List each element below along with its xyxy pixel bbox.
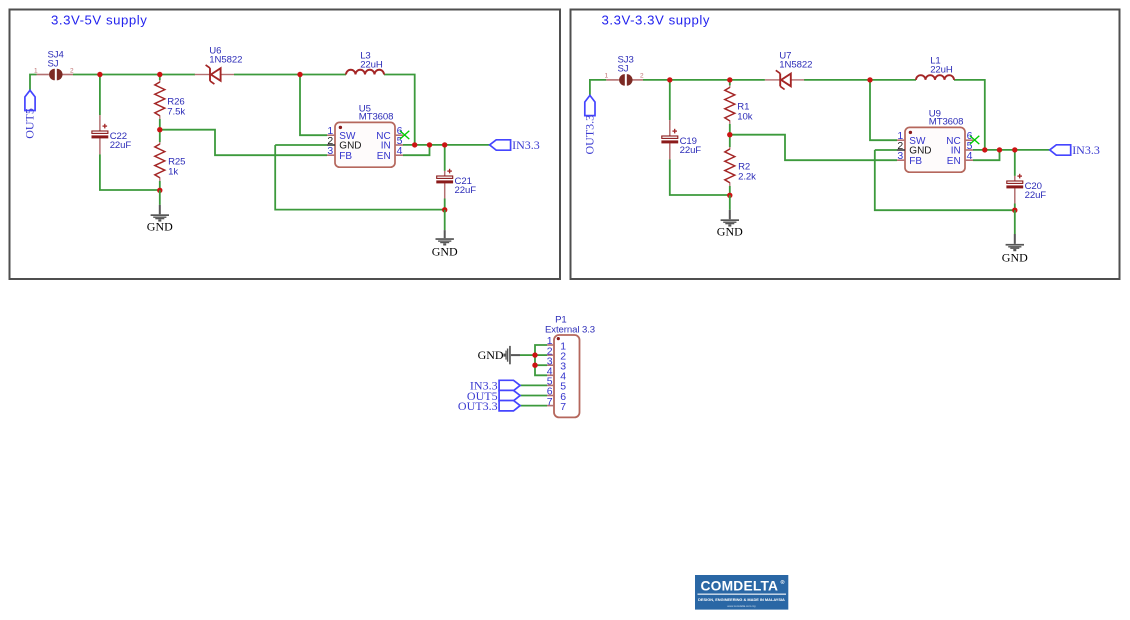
pin 2 of P1: [547, 345, 566, 362]
wire bus to pin 2: [535, 354, 547, 356]
svg-text:External 3.3: External 3.3: [545, 325, 595, 336]
junction divider node: [157, 127, 162, 132]
junction C20 bottom: [1012, 208, 1017, 213]
COMDELTA logo: [695, 575, 788, 610]
pin 4 EN of U5: [377, 145, 403, 162]
svg-text:3: 3: [897, 150, 903, 162]
svg-text:2: 2: [70, 67, 74, 74]
svg-text:GND: GND: [1002, 250, 1028, 264]
pin 4 EN of U9: [947, 150, 973, 167]
wire divider node to pin FB: [160, 130, 327, 156]
pin 4 of P1: [547, 366, 566, 383]
wire junction to R1: [729, 80, 731, 86]
svg-text:IN3.3: IN3.3: [512, 138, 540, 152]
op-amp/IC U9 MT3608 body: [905, 108, 965, 172]
svg-text:DESIGN, ENGINEERING & MADE IN: DESIGN, ENGINEERING & MADE IN MALAYSIA: [698, 597, 785, 602]
pin 5 IN of U9: [951, 140, 973, 157]
wire node to pin SW of U9: [870, 80, 897, 140]
wire to ground under C21: [444, 210, 446, 230]
svg-text:EN: EN: [947, 156, 961, 167]
capacitor C21: [436, 169, 476, 199]
capacitor C20: [1006, 174, 1046, 204]
wire node to pin SW: [300, 75, 327, 136]
svg-text:IN3.3: IN3.3: [1072, 143, 1100, 157]
solder jumper SJ3: [618, 55, 634, 86]
svg-text:3.3V-3.3V supply: 3.3V-3.3V supply: [602, 13, 711, 28]
svg-text:7.5k: 7.5k: [167, 107, 185, 118]
pin 2 of SJ4: [62, 67, 74, 74]
svg-text:7: 7: [547, 396, 553, 408]
wire pin GND of U9 left: [875, 149, 897, 151]
ground GND at P1 (left pointing): [478, 346, 520, 364]
net flag IN3.3 left section: [490, 138, 540, 152]
junction EN riser on IN row: [427, 142, 432, 147]
svg-text:COMDELTA: COMDELTA: [701, 579, 779, 594]
wire junction down to C19: [669, 80, 671, 120]
pin 1 of P1: [547, 335, 566, 352]
svg-text:1k: 1k: [168, 167, 178, 178]
pin 2 GND of U9: [897, 140, 932, 157]
net flag OUT5: [22, 90, 36, 139]
svg-text:FB: FB: [909, 156, 922, 167]
inductor L1 22uH: [916, 56, 954, 80]
pin 3 FB of U9: [897, 150, 922, 167]
ground under R25 GND: [147, 205, 173, 234]
svg-text:22uH: 22uH: [360, 60, 383, 71]
wire inductor L1 down to IN pin row: [954, 80, 985, 150]
capacitor C22: [92, 115, 132, 154]
junction C20 top on IN row: [1012, 147, 1017, 152]
wire bus to pin 3: [535, 364, 547, 366]
wire to ground under C20: [1014, 210, 1016, 234]
wire C19 to ground node: [670, 159, 730, 195]
wire IN row down to C20: [1014, 150, 1016, 176]
pin 6 NC of U5: [376, 125, 403, 142]
solder jumper SJ4: [48, 50, 65, 81]
svg-text:3.3V-5V supply: 3.3V-5V supply: [51, 13, 147, 28]
pin 3 of P1: [547, 355, 566, 372]
junction L1 drop on IN row: [982, 147, 987, 152]
svg-text:22uF: 22uF: [680, 145, 702, 156]
svg-text:FB: FB: [339, 151, 352, 162]
junction L3 drop on IN row: [412, 142, 417, 147]
svg-text:1N5822: 1N5822: [209, 55, 242, 66]
wire bus to ground symbol: [520, 354, 535, 356]
wire R1 to divider node: [729, 124, 731, 135]
ground under C21 GND: [432, 230, 458, 259]
svg-text:22uF: 22uF: [455, 185, 477, 196]
svg-text:7: 7: [560, 401, 566, 413]
wire C21 to bottom node: [444, 199, 446, 210]
svg-text:22uF: 22uF: [1025, 190, 1047, 201]
svg-text:22uH: 22uH: [930, 65, 953, 76]
svg-text:4: 4: [967, 150, 973, 162]
junction R1 top: [727, 77, 732, 82]
junction SW drop: [297, 72, 302, 77]
svg-text:GND: GND: [478, 348, 504, 362]
wire C20 to bottom node: [1014, 204, 1016, 211]
ground under C20 GND: [1002, 234, 1028, 264]
svg-text:GND: GND: [717, 225, 743, 239]
svg-text:2.2k: 2.2k: [738, 172, 756, 183]
svg-text:10k: 10k: [737, 112, 752, 123]
junction ground node right: [727, 193, 732, 198]
junction C21 top on IN row: [442, 142, 447, 147]
wire R26 to divider node: [159, 119, 161, 130]
net flag IN3.3 right section: [1050, 143, 1100, 157]
junction SJ3 output node: [667, 77, 672, 82]
resistor R26: [155, 80, 186, 119]
wire OUT3.3 flag to P1: [520, 405, 547, 407]
wire pin EN of U9 up to IN row: [973, 150, 1000, 160]
wire SJ4 pin 2 to diode U6: [73, 74, 195, 76]
wire GND bus pins 1-4: [535, 345, 547, 375]
wire IN row down to C21: [444, 145, 446, 171]
frame box: 3.3V-5V supply section: [10, 10, 561, 280]
wire GND net to C21 bottom: [275, 145, 445, 210]
wire to ground under R25: [159, 190, 161, 205]
svg-text:1N5822: 1N5822: [779, 60, 812, 71]
net flag OUT5 at P1: [467, 389, 520, 403]
svg-text:2: 2: [640, 73, 644, 80]
svg-text:1: 1: [34, 67, 38, 74]
wire R2 to ground node: [729, 186, 731, 195]
pin 2 GND of U5: [327, 135, 362, 152]
wire OUT3.3 to SJ3 pin 1: [590, 80, 606, 96]
svg-text:OUT5: OUT5: [22, 108, 36, 139]
resistor R1: [725, 85, 753, 124]
op-amp/IC U5 MT3608 body: [335, 103, 395, 167]
wire divider node to R25: [159, 130, 161, 142]
svg-text:OUT3.3: OUT3.3: [458, 399, 498, 413]
wire pin GND left: [275, 144, 327, 146]
no-connect X on pin 6 NC of U9: [970, 136, 979, 144]
pin 5 IN of U5: [381, 135, 403, 152]
wire diode U6 to inductor L3: [234, 74, 346, 76]
junction bus pin 2: [532, 352, 537, 357]
connector P1 External 3.3 body: [545, 314, 595, 417]
wire diode U7 to inductor L1: [804, 79, 916, 81]
junction bus pin 3: [532, 363, 537, 368]
svg-text:GND: GND: [432, 245, 458, 259]
resistor R2: [725, 147, 756, 186]
svg-text:SJ: SJ: [48, 59, 59, 70]
wire IN pin row to IN3.3 flag right: [973, 149, 1050, 151]
junction ground node left: [157, 188, 162, 193]
pin 1 SW of U5: [327, 125, 356, 142]
frame box: 3.3V-3.3V supply section: [571, 10, 1120, 280]
ground under R2 GND: [717, 210, 743, 239]
svg-text:MT3608: MT3608: [929, 116, 964, 127]
pin 3 FB of U5: [327, 145, 352, 162]
pin 5 of P1: [547, 376, 566, 393]
svg-text:22uF: 22uF: [110, 140, 132, 151]
pin 1 of SJ4: [34, 67, 49, 74]
wire IN3.3 flag to P1: [520, 384, 547, 386]
wire SJ3 pin 2 to diode U7: [643, 79, 765, 81]
svg-text:GND: GND: [147, 220, 173, 234]
svg-text:SJ: SJ: [618, 64, 629, 75]
wire divider node to R2: [729, 135, 731, 147]
pin 1 SW of U9: [897, 130, 926, 147]
pin 1 of SJ3: [604, 73, 618, 80]
wire pin EN up to IN row: [403, 145, 430, 155]
wire junction down to C22: [99, 75, 101, 116]
svg-text:3: 3: [327, 145, 333, 157]
wire GND net to C20 bottom: [875, 150, 1015, 210]
wire IN pin row to IN3.3 flag: [403, 144, 490, 146]
pin 7 of P1: [547, 396, 566, 413]
net flag OUT3.3: [582, 95, 596, 154]
wire junction to R26: [159, 75, 161, 81]
wire inductor L3 down to IN pin row: [384, 75, 415, 145]
no-connect X on pin 6 NC of U5: [400, 131, 409, 139]
junction SJ4 output node: [97, 72, 102, 77]
diode U6 1N5822: [195, 45, 243, 84]
junction C21 bottom: [442, 207, 447, 212]
net flag IN3.3 at P1: [470, 379, 520, 393]
wire C22 to ground node: [100, 154, 160, 190]
junction SW drop right: [867, 77, 872, 82]
resistor R25: [155, 142, 186, 181]
svg-text:®: ®: [781, 579, 785, 586]
junction EN riser on IN row right: [997, 147, 1002, 152]
wire R25 to ground node: [159, 181, 161, 190]
pin 2 of SJ3: [632, 73, 644, 80]
wire OUT5 flag to P1: [520, 395, 547, 397]
svg-text:OUT3.3: OUT3.3: [582, 115, 596, 155]
svg-text:1: 1: [604, 73, 608, 80]
diode U7 1N5822: [765, 50, 812, 89]
svg-text:www.comdelta.com.my: www.comdelta.com.my: [727, 604, 756, 608]
svg-text:EN: EN: [377, 151, 391, 162]
net flag OUT3.3 at P1: [458, 399, 520, 413]
svg-text:4: 4: [397, 145, 403, 157]
junction divider node right: [727, 132, 732, 137]
wire to ground under R2: [729, 195, 731, 210]
wire OUT5 to SJ4 pin 1: [30, 75, 37, 91]
capacitor C19: [661, 120, 701, 159]
junction R26 top: [157, 72, 162, 77]
inductor L3 22uH: [346, 51, 384, 75]
wire divider node to pin FB of U9: [730, 135, 897, 161]
pin 6 of P1: [547, 386, 566, 403]
svg-text:MT3608: MT3608: [359, 111, 394, 122]
pin 6 NC of U9: [946, 130, 973, 147]
